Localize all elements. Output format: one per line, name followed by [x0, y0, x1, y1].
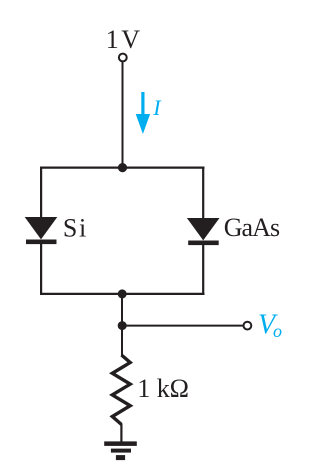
- wire left branch lower: [40, 244, 42, 295]
- wire from 1V terminal down to top node: [122, 62, 124, 168]
- wire bottom rail: [40, 293, 205, 295]
- svg-text:o: o: [273, 321, 282, 341]
- diode D1 Si triangle: [25, 217, 58, 239]
- svg-text:Si: Si: [63, 213, 86, 242]
- ground bar 2: [111, 449, 131, 453]
- current arrow I: [136, 92, 150, 134]
- wire right branch upper: [202, 167, 204, 220]
- diode D2 GaAs triangle: [187, 218, 220, 240]
- wire to Vo terminal: [122, 325, 243, 327]
- diode D2 GaAs cathode bar: [188, 241, 219, 246]
- svg-text:V: V: [121, 25, 140, 54]
- wire top rail: [40, 167, 205, 169]
- node junction top: [118, 163, 127, 172]
- terminal (1 V source): [119, 54, 127, 62]
- svg-text:GaAs: GaAs: [224, 213, 280, 242]
- wire left branch upper: [40, 167, 42, 219]
- svg-text:1 kΩ: 1 kΩ: [137, 374, 189, 403]
- terminal Vo: [244, 322, 252, 330]
- wire bottom node down to resistor: [121, 293, 123, 356]
- ground bar 1: [104, 441, 137, 446]
- svg-text:1: 1: [106, 25, 119, 54]
- ground bar 3: [116, 455, 125, 460]
- diode D1 Si cathode bar: [26, 240, 57, 245]
- wire resistor to ground: [120, 424, 122, 443]
- node junction bottom rail: [118, 289, 127, 298]
- node junction Vo tap: [118, 321, 127, 330]
- wire right branch lower: [202, 245, 204, 295]
- resistor R 1kohm zigzag: [112, 355, 130, 425]
